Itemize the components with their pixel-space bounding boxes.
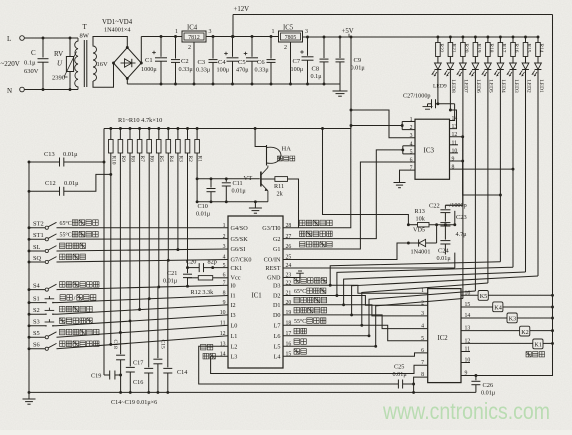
label row 26 text [300, 242, 306, 248]
svg-text:LED8: LED8 [450, 80, 456, 93]
svg-text:2: 2 [421, 300, 424, 306]
wire LED4 cathode [499, 70, 501, 262]
resistor R21 [449, 37, 451, 43]
wire IC3 pin11 stub [450, 144, 459, 146]
node N terminal [20, 87, 25, 92]
svg-text:LED4: LED4 [500, 80, 506, 93]
svg-text:0.01μ: 0.01μ [393, 371, 408, 378]
svg-text:0.33μ: 0.33μ [196, 67, 211, 74]
wire net D row19 link [352, 276, 538, 315]
svg-text:55°C: 55°C [60, 232, 72, 239]
svg-text:0.01μ: 0.01μ [437, 255, 452, 262]
label row 16 text [294, 339, 300, 345]
svg-text:C9: C9 [354, 57, 362, 64]
svg-text:10: 10 [220, 310, 226, 316]
switch S6 [29, 348, 45, 350]
wire LED8 cathode [449, 70, 451, 111]
wire 5V low rail [104, 128, 351, 130]
resistor R12 [188, 277, 199, 279]
capacitor C17 [129, 321, 131, 367]
svg-text:IC4: IC4 [187, 25, 198, 32]
capacitor C6 [270, 37, 272, 59]
svg-text:C14: C14 [177, 369, 187, 376]
wire K5 out [488, 294, 552, 296]
diode VD5 [408, 242, 418, 244]
wire net D row18 link [362, 283, 488, 325]
label S4 text [60, 282, 66, 288]
svg-text:I0: I0 [231, 282, 236, 289]
wire secondary top [93, 37, 127, 48]
svg-text:11: 11 [220, 321, 226, 327]
svg-text:C4: C4 [218, 59, 226, 66]
wire row S4 [57, 285, 229, 289]
svg-text:55°C: 55°C [294, 318, 306, 325]
capacitor C3 [212, 37, 214, 59]
capacitor C19 [104, 374, 110, 376]
svg-text:G1: G1 [273, 246, 281, 253]
capacitor C15 [157, 287, 159, 358]
svg-text:IC1: IC1 [252, 293, 262, 300]
wire LED9 cathode [437, 70, 439, 104]
svg-text:~220V: ~220V [1, 60, 20, 68]
svg-text:630V: 630V [24, 68, 39, 75]
wire secondary bottom [93, 63, 114, 87]
ground power [339, 84, 341, 91]
svg-text:C15: C15 [159, 340, 165, 350]
capacitor C16 [148, 299, 150, 368]
svg-text:S1: S1 [33, 295, 40, 302]
resistor R1 [196, 129, 198, 140]
svg-text:C6: C6 [257, 59, 265, 66]
svg-text:D3: D3 [273, 282, 281, 289]
svg-text:+12V: +12V [234, 6, 250, 13]
svg-text:12: 12 [220, 331, 226, 337]
wire +5V feed [350, 37, 352, 129]
svg-text:ST1: ST1 [33, 232, 44, 239]
wire LED5 cathode [487, 70, 489, 284]
wire K4 out [503, 306, 553, 308]
svg-text:3: 3 [305, 29, 308, 35]
svg-text:1: 1 [272, 29, 275, 35]
node bus S2 [28, 313, 31, 316]
svg-text:6: 6 [410, 158, 413, 164]
wire IC5 pin2 [290, 42, 292, 84]
capacitor C7 [307, 37, 309, 56]
svg-text:D2: D2 [273, 293, 281, 300]
switch SL [29, 250, 45, 252]
wire IC2 pin8 [414, 377, 428, 392]
wire row ST1 [57, 238, 229, 241]
wire LED7 cathode [462, 70, 464, 299]
LED LED3 [510, 63, 517, 69]
switch ST2 [29, 227, 45, 229]
svg-text:2: 2 [188, 45, 191, 51]
node cascade row20 [342, 303, 345, 306]
resistor R13 [408, 224, 417, 226]
node L terminal [20, 36, 25, 41]
wire net D row21 link [337, 267, 513, 295]
svg-text:2390: 2390 [52, 75, 65, 82]
svg-text:7: 7 [410, 166, 413, 172]
svg-text:C5: C5 [238, 59, 246, 66]
transformer T [75, 38, 78, 90]
svg-text:I1: I1 [231, 293, 236, 300]
svg-text:S5: S5 [33, 330, 40, 337]
wire row24 link [283, 267, 455, 269]
svg-text:LED9: LED9 [433, 84, 447, 90]
wire row22 to IC2 pin1 [283, 285, 428, 293]
wire LED6 cathode [474, 70, 476, 292]
wire bridge out- [126, 79, 128, 85]
wire rail-end drop [103, 129, 105, 376]
svg-text:R13: R13 [415, 208, 425, 215]
svg-text:C16: C16 [133, 379, 143, 386]
resistor R22 [437, 37, 439, 43]
LED LED6 [472, 63, 479, 69]
wire R lead to SQ [167, 153, 169, 260]
label row 27 text [300, 231, 306, 237]
resistor R2 [187, 129, 189, 140]
switch S3 [29, 325, 45, 327]
svg-text:0.01μ: 0.01μ [163, 278, 178, 285]
svg-text:1N4001×4: 1N4001×4 [104, 27, 131, 34]
wire IC2 pin14 [461, 317, 507, 319]
wire +12V top rail [233, 14, 553, 16]
LED LED5 [485, 63, 492, 69]
svg-text:C19: C19 [91, 373, 101, 380]
capacitor C10 [210, 179, 212, 188]
svg-text:3: 3 [223, 244, 226, 250]
svg-text:R14: R14 [538, 44, 544, 53]
wire buzzer feed [255, 129, 266, 147]
svg-text:K4: K4 [494, 305, 502, 312]
svg-text:S4: S4 [33, 282, 41, 289]
svg-text:27: 27 [286, 234, 292, 240]
wire net D row17 link [369, 291, 475, 336]
node cascade row17 [368, 334, 371, 337]
node bus S4 [28, 288, 31, 291]
relay K3 [507, 313, 517, 323]
capacitor C13 [29, 161, 60, 163]
svg-text:I2: I2 [231, 302, 236, 309]
svg-text:GND: GND [267, 275, 281, 282]
wire row19 to IC2 pin4 [283, 315, 428, 329]
svg-text:K5: K5 [480, 293, 488, 300]
svg-text:C7: C7 [293, 58, 301, 65]
svg-text:2: 2 [410, 125, 413, 131]
capacitor C20 [188, 267, 200, 269]
capacitor C18 [120, 333, 122, 355]
svg-text:C2: C2 [181, 58, 189, 65]
svg-text:0.1μ: 0.1μ [24, 60, 36, 67]
svg-text:IC5: IC5 [283, 25, 294, 32]
svg-text:+5V: +5V [342, 28, 354, 35]
svg-text:I3: I3 [231, 312, 236, 319]
svg-text:0.01μ: 0.01μ [63, 151, 78, 158]
svg-text:SQ: SQ [33, 255, 42, 262]
switch SQ [29, 261, 45, 263]
node cascade row16 [374, 345, 377, 348]
svg-text:G3/TI0: G3/TI0 [262, 225, 280, 232]
svg-text:REST: REST [265, 265, 280, 272]
resistor R9 [119, 129, 121, 140]
op-amp IC1 microcontroller [228, 216, 283, 368]
svg-text:0.33μ: 0.33μ [179, 66, 194, 73]
wire L line [24, 37, 78, 39]
svg-text:C10: C10 [198, 203, 208, 210]
wire bridge out+ [140, 37, 142, 64]
svg-text:SL: SL [33, 244, 41, 251]
svg-text:L3: L3 [231, 353, 238, 360]
resistor R7 [139, 129, 141, 140]
wire R lead to S3 [129, 153, 131, 321]
node cascade row22 [329, 284, 332, 287]
svg-text:C23: C23 [456, 214, 467, 221]
svg-text:2: 2 [223, 234, 226, 240]
wire row21 to IC2 pin2 [283, 296, 428, 306]
wire base line [226, 178, 259, 180]
svg-text:470μ: 470μ [236, 67, 249, 74]
capacitor C9 [339, 37, 341, 58]
svg-text:G7/CK0: G7/CK0 [231, 257, 252, 264]
wire IC2 pin15 [461, 306, 493, 308]
svg-text:S2: S2 [33, 307, 40, 314]
wire R lead to S2 [139, 153, 141, 310]
wire row16 ext [283, 345, 376, 347]
svg-text:/: / [74, 295, 76, 302]
label row 22 text [294, 278, 300, 284]
capacitor C25 [385, 383, 398, 385]
wire IC3 pin9 [450, 161, 501, 195]
svg-text:0.33μ: 0.33μ [255, 67, 270, 74]
capacitor C21 [187, 268, 189, 274]
wire right border [461, 15, 553, 376]
svg-text:K2: K2 [521, 329, 529, 336]
wire K2 out [530, 330, 553, 332]
switch S5 [29, 336, 45, 338]
resistor R10 [110, 129, 112, 140]
svg-text:CO/IN: CO/IN [264, 257, 281, 264]
wire R lead to S6 [110, 153, 112, 344]
svg-text:4: 4 [410, 141, 413, 147]
svg-text:C: C [31, 49, 36, 57]
node bus ST1 [28, 238, 31, 241]
resistor R19 [474, 37, 476, 43]
resistor R5 [158, 129, 160, 140]
wire IC3 pin10 stub [450, 152, 459, 154]
svg-text:Vcc: Vcc [231, 275, 241, 282]
relay K4 [493, 302, 503, 312]
wire net D row16 link [376, 299, 463, 347]
op-amp IC3 box [415, 119, 450, 179]
svg-text:L: L [7, 35, 11, 43]
LED LED4 [497, 63, 504, 69]
svg-text:9: 9 [223, 300, 226, 306]
svg-text:9: 9 [452, 157, 455, 163]
wire IC2 pin16 [461, 294, 478, 296]
wire pin13 net [199, 346, 399, 384]
resistor R4 [167, 129, 169, 140]
svg-text:5: 5 [223, 263, 226, 269]
wire net row28 to IC3 [283, 126, 402, 228]
label buzzer [278, 156, 283, 161]
resistor R14 [537, 37, 539, 43]
varistor RV [69, 38, 71, 57]
wire row15 to IC2 pin6 [283, 353, 428, 356]
svg-text:RV: RV [54, 50, 63, 58]
svg-text:10: 10 [452, 148, 458, 154]
buzzer HA [266, 145, 268, 166]
svg-text:C1: C1 [145, 57, 153, 64]
svg-text:R20: R20 [463, 44, 469, 53]
svg-text:3: 3 [421, 311, 424, 317]
svg-text:0.01μ: 0.01μ [64, 180, 79, 187]
label S5 text [60, 329, 66, 335]
wire row S1 [57, 296, 229, 303]
svg-text:4: 4 [421, 324, 424, 330]
svg-text:LED3: LED3 [513, 80, 519, 93]
svg-text:100μ: 100μ [291, 66, 304, 73]
svg-text:3: 3 [209, 29, 212, 35]
svg-text:K3: K3 [509, 316, 517, 323]
node bus S3 [28, 324, 31, 327]
label row 28 text [300, 220, 306, 226]
resistor R20 [462, 37, 464, 43]
switch S2 [29, 313, 45, 315]
svg-text:0.01μ: 0.01μ [481, 390, 496, 397]
svg-text:8W: 8W [80, 33, 90, 40]
svg-text:2: 2 [284, 45, 287, 51]
wire IC3 pin12 [445, 137, 462, 206]
node bus SQ [28, 261, 31, 264]
svg-text:G5/SK: G5/SK [231, 236, 249, 243]
capacitor C14 [167, 260, 169, 367]
resistor R15 [525, 37, 527, 43]
switch ST1 [29, 238, 45, 240]
svg-text:82p: 82p [208, 259, 217, 266]
capacitor C8 [323, 37, 325, 58]
wire R1 tap [196, 153, 198, 202]
svg-text:7805: 7805 [285, 35, 297, 41]
svg-text:6: 6 [421, 348, 424, 354]
svg-text:4: 4 [223, 255, 226, 261]
wire row ST2 [57, 227, 229, 229]
wire R lead to SL [177, 153, 179, 250]
node +12V [232, 15, 234, 37]
label S2 text [60, 306, 66, 312]
wire IC3 pins4-5 join [402, 146, 404, 154]
svg-text:11: 11 [452, 140, 458, 146]
svg-text:C18: C18 [112, 340, 118, 350]
wire row20 to IC2 pin3 [283, 305, 428, 316]
wire row SQ [57, 260, 229, 263]
svg-text:5: 5 [410, 149, 413, 155]
svg-text:LED1: LED1 [538, 80, 544, 93]
capacitor C5 [251, 37, 253, 57]
wire K3 out [517, 317, 552, 319]
wire emitter rail [197, 201, 268, 203]
switch S1 [29, 302, 45, 304]
svg-text:4.7μ: 4.7μ [456, 231, 468, 238]
svg-text:C21: C21 [167, 270, 177, 277]
wire row25 to VD5 [283, 243, 408, 260]
svg-text:HA: HA [282, 146, 292, 153]
svg-text:IC3: IC3 [424, 147, 435, 155]
wire LED1 cathode [537, 70, 539, 277]
svg-text:L2: L2 [231, 344, 238, 351]
label row 17 text [294, 328, 300, 334]
ground main [28, 392, 30, 398]
node cascade row18 [360, 324, 363, 327]
svg-text:26: 26 [286, 244, 292, 250]
svg-text:IC2: IC2 [438, 335, 449, 342]
wire net D row22 link [330, 262, 500, 286]
label S1 text [60, 295, 66, 301]
resistor R16 [512, 37, 514, 43]
svg-text:C17: C17 [133, 360, 143, 367]
svg-text:0.01μ: 0.01μ [196, 211, 211, 218]
svg-text:0.01μ: 0.01μ [351, 65, 366, 72]
svg-text:6: 6 [223, 273, 226, 279]
wire N line [24, 89, 78, 91]
capacitor C2 [175, 37, 177, 59]
svg-text:C26: C26 [483, 382, 494, 389]
svg-text:G2: G2 [273, 236, 281, 243]
node bus S6 [28, 347, 31, 350]
svg-text:0.01μ: 0.01μ [232, 188, 247, 195]
svg-text:G4/SO: G4/SO [231, 225, 249, 232]
svg-text:5: 5 [421, 336, 424, 342]
svg-text:C12: C12 [45, 180, 56, 187]
label SQ text [60, 254, 66, 260]
svg-text:65°C: 65°C [60, 220, 72, 227]
svg-text:LED7: LED7 [463, 80, 469, 93]
wire VD5 join [436, 225, 438, 243]
relay K1 [533, 339, 543, 349]
svg-text:C24: C24 [438, 248, 449, 255]
op-amp IC2 driver [428, 289, 461, 383]
svg-text:C27/1000p: C27/1000p [403, 93, 431, 100]
svg-text:8: 8 [452, 165, 455, 171]
svg-text:C25: C25 [394, 364, 404, 371]
svg-text:28: 28 [286, 223, 292, 229]
wire LED2 cathode [525, 70, 527, 273]
wire IC2 pin11 stub [461, 351, 470, 353]
svg-text:C20: C20 [186, 259, 196, 266]
svg-text:1: 1 [175, 29, 178, 35]
label jiare [201, 344, 207, 350]
svg-text:R11: R11 [274, 183, 284, 190]
LED LED8 [447, 63, 454, 69]
capacitor C24 [444, 226, 446, 240]
svg-text:7: 7 [421, 360, 424, 366]
capacitor C4 [232, 37, 234, 57]
wire IC3 pin8 [450, 168, 514, 170]
capacitor C23 [444, 213, 446, 222]
resistor R11 [262, 178, 275, 180]
svg-text:C13: C13 [44, 151, 55, 158]
resistor R3 [177, 129, 179, 140]
svg-text:VD5: VD5 [413, 227, 425, 234]
resistor R17 [499, 37, 501, 43]
svg-text:D1: D1 [273, 302, 281, 309]
svg-text:R21: R21 [451, 44, 457, 53]
node cascade row21 [335, 294, 338, 297]
svg-text:C8: C8 [312, 66, 320, 73]
resistor R18 [487, 37, 489, 43]
regulator IC4 [182, 31, 206, 42]
wire R lead to S4 [158, 153, 160, 287]
